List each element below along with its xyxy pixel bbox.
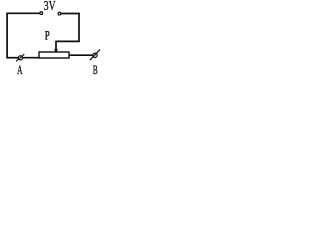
wire top-right horizontal <box>61 13 80 15</box>
terminal A (open circle) <box>18 56 22 60</box>
svg-text:A: A <box>17 63 23 77</box>
wire bottom-left to terminal A <box>6 57 18 59</box>
svg-text:P: P <box>45 28 50 42</box>
battery terminal right (open circle) <box>58 12 61 15</box>
wire resistor to terminal B <box>69 54 93 56</box>
svg-text:3V: 3V <box>44 0 56 13</box>
battery terminal left (open circle) <box>40 12 43 15</box>
wire terminal A to resistor <box>23 57 40 59</box>
wire wiper vertical <box>55 41 57 51</box>
wire left vertical <box>6 13 8 58</box>
terminal A slash <box>16 54 24 61</box>
wire wiper horizontal <box>56 40 80 42</box>
wire top-left horizontal <box>7 12 40 14</box>
svg-text:B: B <box>93 63 98 77</box>
wire right vertical <box>78 13 80 42</box>
terminal B (open circle) <box>93 53 97 57</box>
resistor (rheostat) body R <box>39 52 69 58</box>
terminal B slash <box>90 50 100 61</box>
wiper arrowhead P <box>54 49 58 52</box>
